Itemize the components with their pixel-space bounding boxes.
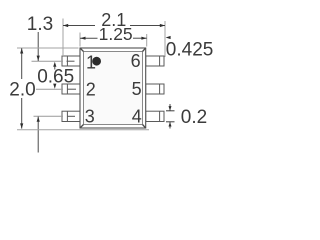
pin 1 (left top lead): [62, 56, 80, 66]
dim line 2.1 left segment: [63, 25, 95, 27]
package body inner (bevel) outline: [84, 52, 143, 125]
svg-text:5: 5: [132, 79, 142, 99]
dim line 2.0 lower segment with down arrow: [21, 98, 23, 129]
pin 3 (left bottom lead): [62, 111, 80, 121]
dim 0.2 bottom arrow pointing up: [169, 122, 171, 129]
pin 2 (left middle lead): [62, 84, 80, 94]
dim line 1.25 right segment: [133, 37, 147, 39]
dim 0.2 top arrow pointing down: [169, 104, 171, 111]
svg-text:2: 2: [86, 80, 96, 100]
pin 4 (right bottom lead): [146, 111, 164, 121]
svg-text:1.3: 1.3: [27, 14, 53, 35]
pin 3 centerline: [34, 115, 64, 117]
svg-text:0.2: 0.2: [181, 107, 207, 128]
pin 5 (right middle lead): [146, 84, 164, 94]
extension tick top of 0.2 dim: [166, 110, 175, 112]
extension line right of 2.1 dim: [164, 21, 166, 57]
dim 0.65 bottom arrow pointing down at pin2 centerline: [53, 84, 56, 89]
extension tick bottom of 0.2 dim: [166, 121, 175, 123]
dim line 2.0 upper segment with up arrow: [21, 48, 23, 79]
bevel chamfer bottom-right: [143, 125, 146, 129]
dim 0.65 top arrow pointing up at pin1 centerline: [53, 62, 56, 67]
svg-text:0.425: 0.425: [166, 39, 214, 60]
arrowhead 2.1 right: [160, 24, 165, 27]
svg-text:3: 3: [85, 107, 95, 127]
svg-text:6: 6: [131, 51, 141, 71]
pin 2 centerline: [36, 88, 63, 90]
pin 1 index dot: [92, 57, 101, 66]
extension line top of 2.0 dim: [17, 47, 79, 49]
svg-text:1.25: 1.25: [99, 24, 133, 44]
arrowhead 1.25 right: [141, 37, 146, 40]
arrowhead 0.425 (points left at pin end): [166, 36, 171, 39]
arrowhead 1.25 left: [80, 37, 85, 40]
dim line 2.1 right segment: [130, 25, 165, 27]
extension line bottom of 2.0 dim (seating plane): [17, 129, 149, 131]
extension line left of 2.1 dim: [62, 19, 64, 56]
svg-text:4: 4: [132, 107, 142, 127]
pin 6 (right top lead): [146, 56, 164, 66]
dim line 1.3 lower shaft with up arrow at pin3 centerline: [37, 117, 39, 153]
pin 1 centerline: [32, 60, 64, 62]
bevel chamfer bottom-left: [80, 125, 84, 129]
arrowhead 2.1 left: [63, 24, 68, 27]
extension line left of 1.25 dim: [79, 33, 81, 47]
svg-text:2.0: 2.0: [9, 80, 35, 101]
bevel chamfer top-right: [143, 48, 146, 52]
dim line 1.25 left segment: [80, 37, 98, 39]
package body outer outline: [80, 48, 146, 128]
bevel chamfer top-left: [80, 48, 84, 52]
extension line right of 1.25 dim: [146, 34, 148, 47]
dim line 1.3 upper shaft with down arrow at pin1 centerline: [37, 32, 39, 61]
